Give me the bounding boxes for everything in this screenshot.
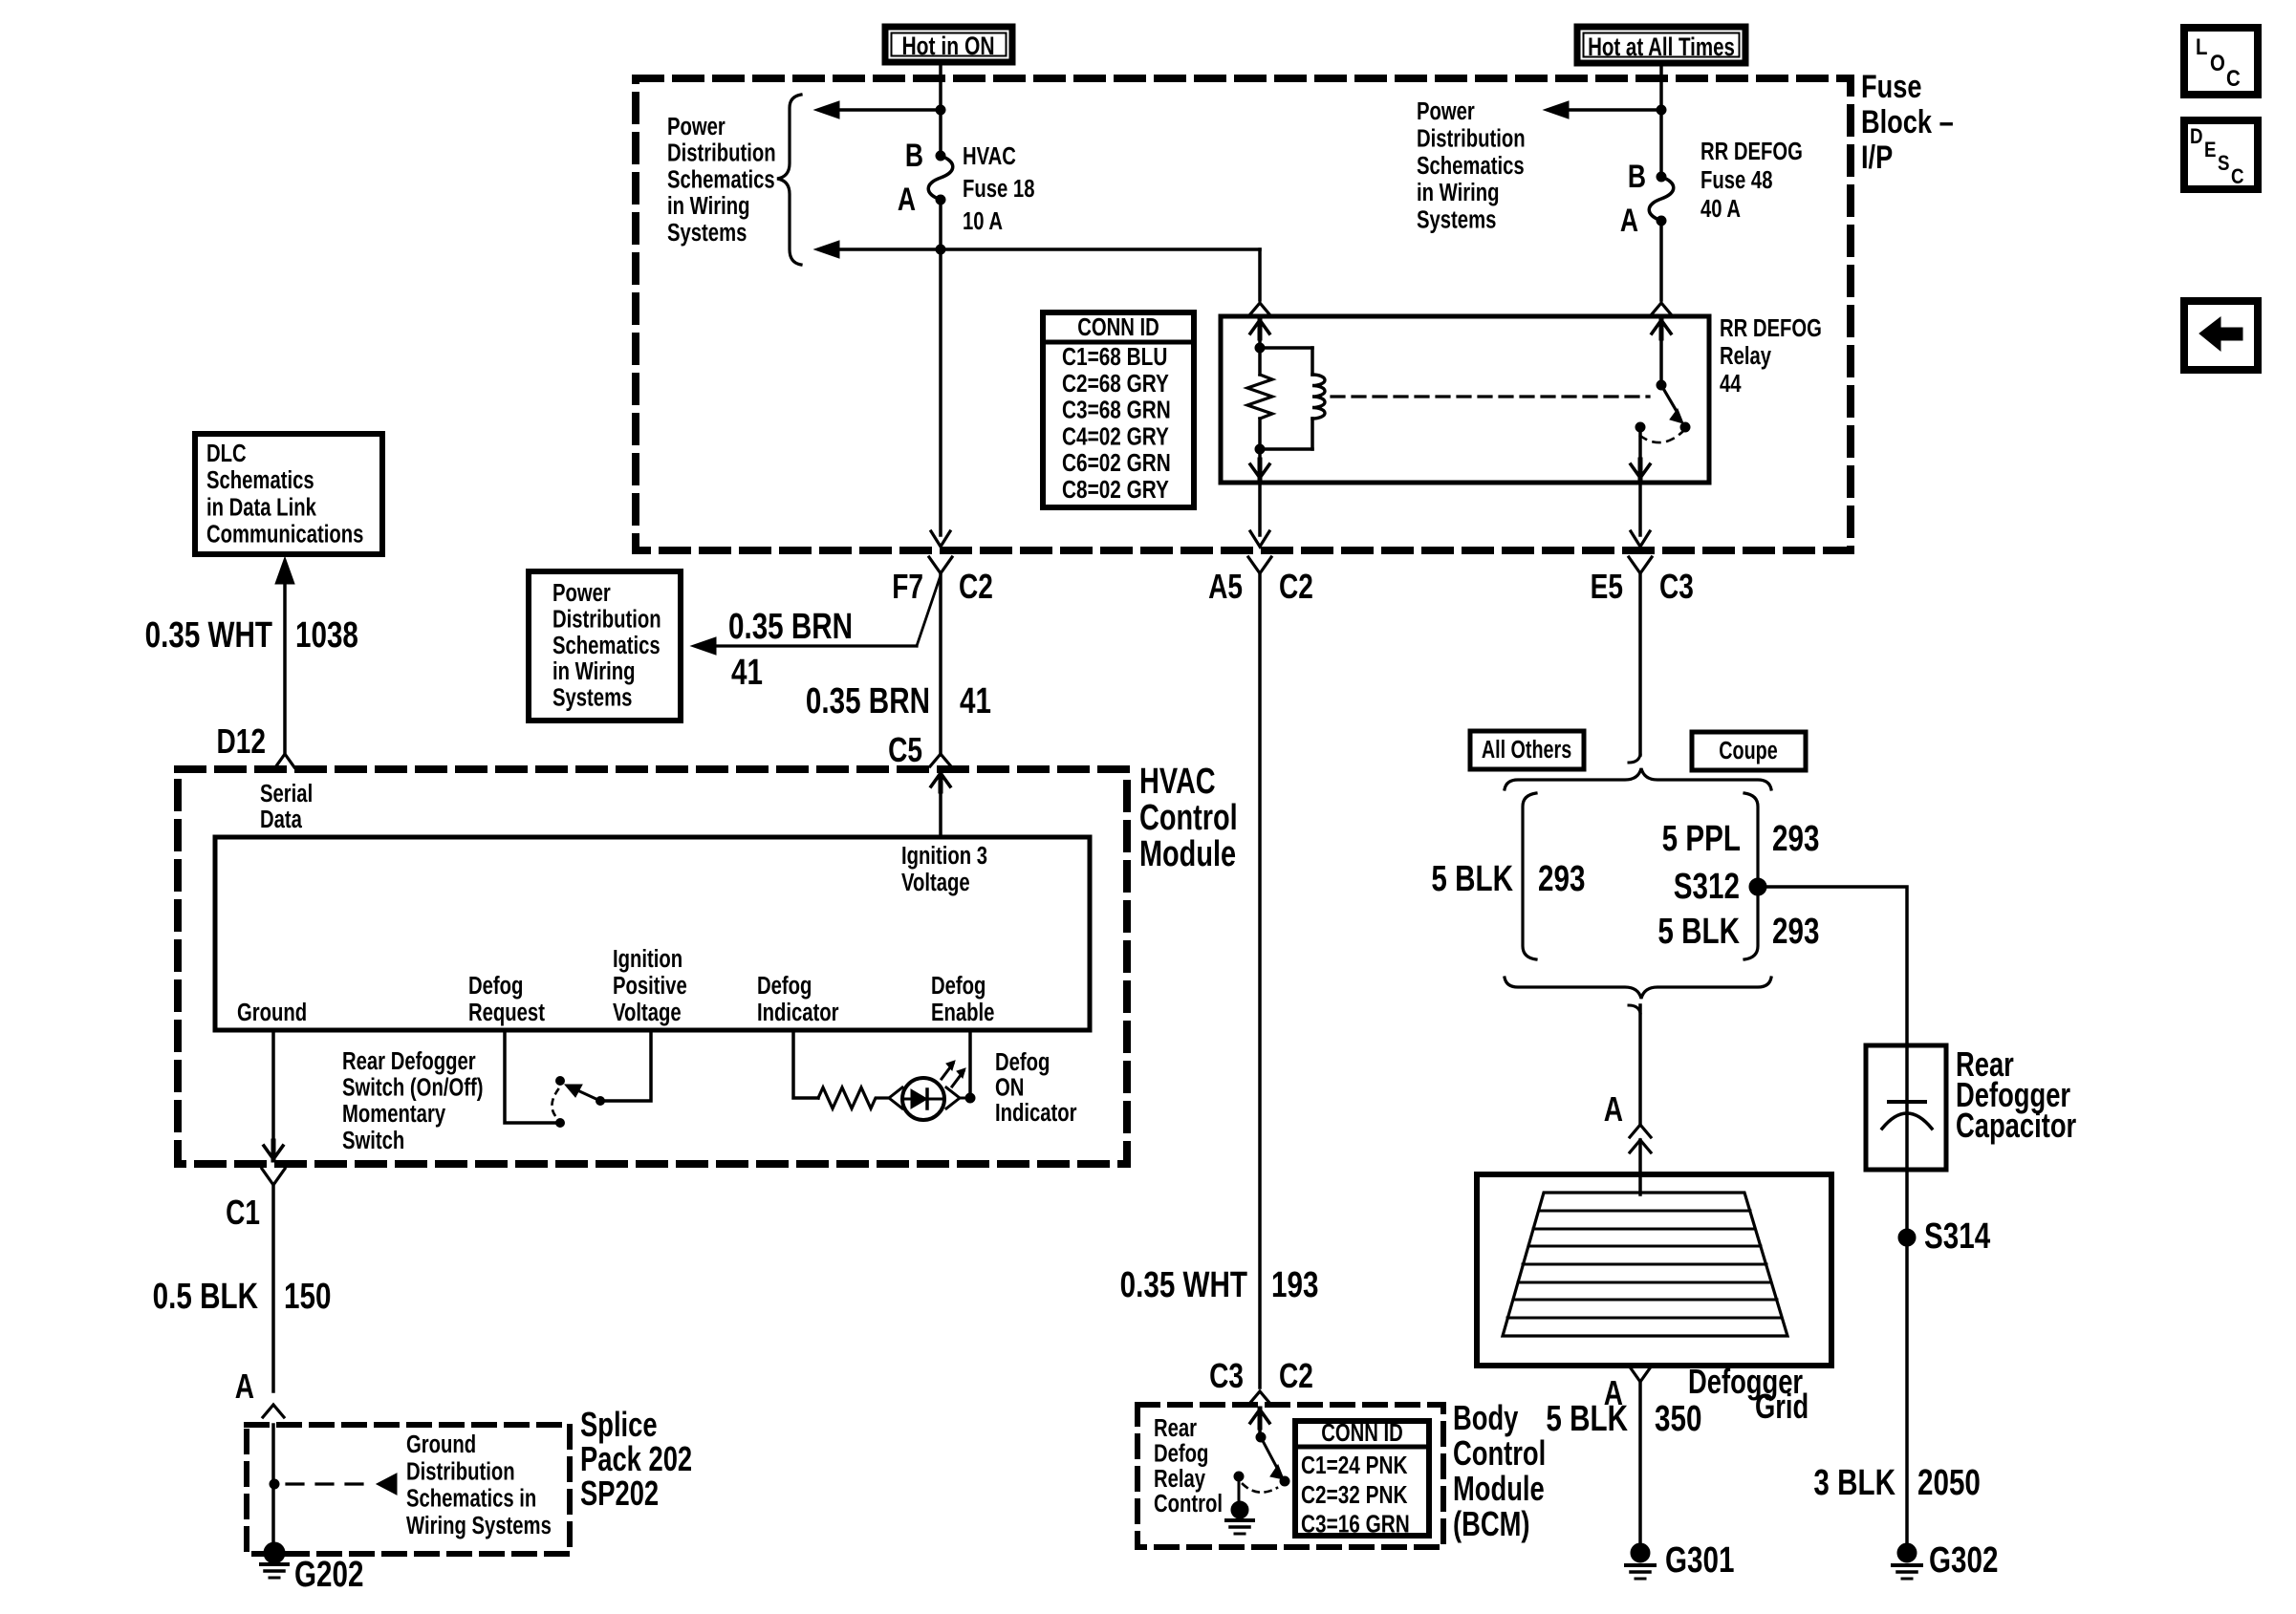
svg-text:Fuse 18: Fuse 18 xyxy=(963,175,1035,203)
svg-text:Defog: Defog xyxy=(931,972,986,1000)
svg-text:Schematics: Schematics xyxy=(552,631,661,658)
svg-text:CONN ID: CONN ID xyxy=(1077,313,1159,341)
connector fork D12 (arms down) xyxy=(275,754,294,767)
svg-text:C3: C3 xyxy=(1659,568,1694,606)
relay coil pin arrow (up) xyxy=(1258,333,1262,348)
svg-text:2050: 2050 xyxy=(1917,1463,1981,1503)
BCM internal ground xyxy=(1238,1476,1241,1502)
svg-text:G301: G301 xyxy=(1665,1540,1734,1581)
svg-text:Indicator: Indicator xyxy=(757,999,839,1026)
svg-text:Hot at All Times: Hot at All Times xyxy=(1588,32,1735,61)
svg-text:5 BLK: 5 BLK xyxy=(1431,859,1513,899)
svg-text:40 A: 40 A xyxy=(1700,195,1741,223)
wire F7 to HVAC control module (0.35 BRN 41) xyxy=(939,573,942,755)
svg-text:Switch: Switch xyxy=(342,1126,404,1153)
svg-text:C: C xyxy=(2226,65,2241,91)
BCM pin arrow (up) xyxy=(1250,1410,1269,1423)
connector fork below grid xyxy=(1629,1366,1652,1382)
wire relay E5 output to block edge xyxy=(1638,483,1642,535)
switch travel dashed arc xyxy=(552,1089,558,1117)
svg-text:0.35 BRN: 0.35 BRN xyxy=(806,681,930,721)
connector chevron A (splice) xyxy=(263,1405,284,1417)
svg-text:Defog: Defog xyxy=(1154,1439,1208,1467)
svg-text:E: E xyxy=(2204,140,2216,162)
relay coil output arrow (down) xyxy=(1258,449,1262,466)
relay output contact xyxy=(1635,422,1645,432)
svg-text:Systems: Systems xyxy=(552,683,632,711)
svg-text:Ignition: Ignition xyxy=(613,945,682,973)
wire Ground pin to module edge xyxy=(271,1030,275,1147)
svg-text:Voltage: Voltage xyxy=(901,869,970,896)
svg-text:G202: G202 xyxy=(294,1555,363,1595)
svg-text:S: S xyxy=(2218,153,2229,176)
svg-text:CONN ID: CONN ID xyxy=(1321,1419,1403,1447)
connector chevron at relay coil pin xyxy=(1249,303,1270,315)
svg-text:Distribution: Distribution xyxy=(406,1457,515,1485)
variant box "Coupe" xyxy=(1692,732,1806,770)
wire serial data to DLC box with arrow xyxy=(283,583,287,752)
wire to defogger grid xyxy=(1638,1005,1642,1124)
relay coil top junction xyxy=(1255,343,1265,353)
connector fork E5/C3 xyxy=(1629,557,1652,573)
LED diode symbol xyxy=(911,1089,927,1108)
svg-text:Fuse: Fuse xyxy=(1861,68,1921,105)
junction node on HVAC fuse feed xyxy=(936,105,945,115)
left variant wire segment xyxy=(1523,793,1536,959)
svg-text:Voltage: Voltage xyxy=(613,999,682,1026)
svg-text:150: 150 xyxy=(284,1277,331,1317)
svg-text:Systems: Systems xyxy=(1417,205,1496,233)
svg-text:A: A xyxy=(1604,1090,1623,1129)
svg-text:Pack 202: Pack 202 xyxy=(580,1439,692,1478)
LED circle (Defog ON Indicator) xyxy=(902,1078,944,1120)
svg-text:Power: Power xyxy=(667,113,726,140)
svg-text:Hot in ON: Hot in ON xyxy=(901,32,994,61)
BCM driver contact xyxy=(1280,1476,1289,1486)
lower split brace xyxy=(1505,978,1771,999)
CONN ID table (BCM) xyxy=(1295,1421,1429,1536)
svg-text:0.5 BLK: 0.5 BLK xyxy=(153,1277,259,1317)
svg-text:293: 293 xyxy=(1538,859,1585,899)
relay switch arm with arrowhead xyxy=(1661,385,1678,413)
svg-text:41: 41 xyxy=(731,653,763,693)
relay coil (4 bumps) xyxy=(1260,346,1312,350)
svg-text:Systems: Systems xyxy=(667,218,747,246)
svg-text:44: 44 xyxy=(1720,370,1742,398)
svg-text:D: D xyxy=(2190,126,2203,149)
splice node S314 xyxy=(1898,1229,1916,1246)
svg-text:10 A: 10 A xyxy=(963,207,1003,235)
svg-text:Defog: Defog xyxy=(468,972,523,1000)
svg-text:Capacitor: Capacitor xyxy=(1956,1106,2076,1145)
svg-text:Control: Control xyxy=(1453,1433,1546,1473)
svg-text:C3: C3 xyxy=(1209,1357,1244,1395)
variant box "All Others" xyxy=(1470,731,1584,769)
svg-text:293: 293 xyxy=(1772,819,1819,859)
svg-text:350: 350 xyxy=(1655,1399,1701,1439)
wire into grid xyxy=(1638,1174,1642,1194)
junction LED to enable wire xyxy=(960,1097,970,1100)
svg-text:193: 193 xyxy=(1271,1265,1318,1305)
splice node S312 xyxy=(1749,878,1766,895)
svg-text:1038: 1038 xyxy=(295,615,358,656)
connector chevron at relay top xyxy=(1651,303,1672,315)
wire Defog Indicator pin down xyxy=(793,1030,818,1098)
svg-text:5 PPL: 5 PPL xyxy=(1662,819,1741,859)
relay coil bottom junction xyxy=(1255,444,1265,454)
HVAC Control Module dashed outline xyxy=(178,769,1127,1164)
Defogger Grid outer box xyxy=(1477,1174,1831,1366)
nav button LOC xyxy=(2184,28,2258,95)
svg-text:Module: Module xyxy=(1453,1469,1545,1508)
switch upper contact xyxy=(556,1077,565,1086)
relay RR DEFOG Relay 44 outline xyxy=(1221,316,1709,483)
BCM ground contact xyxy=(1234,1472,1244,1481)
svg-text:Enable: Enable xyxy=(931,999,994,1026)
svg-text:Control: Control xyxy=(1139,797,1238,838)
relay resistor (vertical zigzag) xyxy=(1258,348,1262,375)
svg-text:Data: Data xyxy=(260,806,303,833)
svg-text:C: C xyxy=(2231,166,2244,189)
LED input chevron xyxy=(889,1087,902,1108)
svg-text:F7: F7 xyxy=(892,568,923,606)
switch lower contact xyxy=(556,1119,565,1128)
connector fork F7/C2 xyxy=(929,557,952,573)
svg-text:C5: C5 xyxy=(888,731,922,769)
svg-text:Distribution: Distribution xyxy=(552,605,661,633)
svg-text:Relay: Relay xyxy=(1720,342,1771,370)
svg-text:B: B xyxy=(1628,159,1646,195)
svg-text:0.35 BRN: 0.35 BRN xyxy=(728,607,853,647)
relay NO contact xyxy=(1680,422,1690,432)
ground G302 xyxy=(1897,1543,1917,1562)
svg-text:Schematics: Schematics xyxy=(667,165,775,193)
svg-text:RR DEFOG: RR DEFOG xyxy=(1700,138,1803,165)
switch arm with arrowhead (momentary) xyxy=(575,1089,600,1101)
svg-text:S314: S314 xyxy=(1924,1216,1990,1257)
svg-text:C2=68 GRY: C2=68 GRY xyxy=(1062,370,1169,398)
svg-text:C3=16 GRN: C3=16 GRN xyxy=(1301,1510,1410,1538)
svg-text:in Wiring: in Wiring xyxy=(667,192,749,220)
junction node RR fuse feed xyxy=(1657,105,1666,115)
svg-text:C2=32 PNK: C2=32 PNK xyxy=(1301,1481,1408,1509)
svg-text:0.35 WHT: 0.35 WHT xyxy=(145,615,273,656)
svg-text:in Wiring: in Wiring xyxy=(552,657,635,685)
svg-text:Serial: Serial xyxy=(260,780,313,807)
svg-text:5 BLK: 5 BLK xyxy=(1546,1399,1628,1439)
svg-text:A: A xyxy=(235,1367,254,1406)
pin arrow C5 into module xyxy=(931,773,950,786)
svg-text:C3=68 GRN: C3=68 GRN xyxy=(1062,396,1171,423)
svg-text:C8=02 GRY: C8=02 GRY xyxy=(1062,476,1169,504)
svg-text:in Wiring: in Wiring xyxy=(1417,179,1499,206)
svg-text:C1=24 PNK: C1=24 PNK xyxy=(1301,1452,1408,1479)
BCM driver arm with arrowhead xyxy=(1261,1437,1278,1470)
wire A5 to BCM (0.35 WHT 193) xyxy=(1258,573,1262,1388)
svg-text:Switch (On/Off): Switch (On/Off) xyxy=(342,1073,483,1101)
wire F7 fuse output down to fuse block edge xyxy=(939,249,942,535)
svg-text:Indicator: Indicator xyxy=(995,1099,1077,1127)
svg-text:All Others: All Others xyxy=(1482,735,1571,763)
wire Defog Enable pin down xyxy=(968,1030,972,1098)
svg-text:Distribution: Distribution xyxy=(1417,124,1526,152)
wire lower branch to relay feed corner xyxy=(941,247,1260,251)
svg-text:Request: Request xyxy=(468,999,545,1026)
svg-text:Ground: Ground xyxy=(406,1431,476,1458)
svg-text:Defog: Defog xyxy=(995,1048,1050,1076)
svg-text:293: 293 xyxy=(1772,912,1819,952)
capacitor plates xyxy=(1889,1100,1925,1104)
svg-text:DLC: DLC xyxy=(206,440,247,467)
svg-text:41: 41 xyxy=(960,681,991,721)
wire through capacitor box xyxy=(1905,1045,1909,1170)
connector chevron into BCM xyxy=(1249,1391,1270,1404)
svg-text:A5: A5 xyxy=(1208,568,1243,606)
splice junction node xyxy=(270,1479,279,1489)
wire capacitor to S314 xyxy=(1905,1170,1909,1545)
svg-text:A: A xyxy=(1620,203,1638,239)
stub diagonal from F7 connector xyxy=(917,575,941,646)
svg-text:HVAC: HVAC xyxy=(963,142,1016,170)
power label box "Hot in ON" xyxy=(885,27,1012,62)
wire S312 to capacitor xyxy=(1758,887,1907,1045)
wire Defog Request pin down xyxy=(505,1030,555,1123)
brace for power distribution references xyxy=(777,95,801,265)
branch arrow to Power Distribution (right) xyxy=(1569,108,1661,112)
defogger grid element (trapezoid with lines) xyxy=(1503,1193,1787,1336)
svg-text:Power: Power xyxy=(552,579,611,607)
resistor (defog indicator) xyxy=(818,1087,887,1108)
wire Ignition Positive Voltage pin down xyxy=(605,1030,651,1101)
svg-text:E5: E5 xyxy=(1591,568,1623,606)
Splice Pack dashed outline xyxy=(247,1425,570,1554)
branch arrow to Power Distribution (lower) xyxy=(839,247,941,251)
fuse HVAC Fuse 18 (S-curve) xyxy=(928,156,953,200)
LED output chevron xyxy=(946,1087,960,1108)
svg-text:S312: S312 xyxy=(1674,867,1740,907)
wire from Hot in ON into fuse block xyxy=(939,62,942,156)
ground G202 xyxy=(264,1542,285,1563)
svg-text:Control: Control xyxy=(1154,1490,1223,1517)
svg-text:Block –: Block – xyxy=(1861,103,1954,140)
svg-text:G302: G302 xyxy=(1929,1540,1998,1581)
wire RR fuse to relay xyxy=(1659,221,1663,300)
svg-text:Splice: Splice xyxy=(580,1405,658,1444)
svg-text:B: B xyxy=(905,138,923,174)
svg-text:Schematics in: Schematics in xyxy=(406,1484,536,1512)
BCM throw dashed arc xyxy=(1243,1484,1277,1493)
svg-text:(BCM): (BCM) xyxy=(1453,1504,1530,1543)
svg-text:Momentary: Momentary xyxy=(342,1100,445,1128)
svg-text:ON: ON xyxy=(995,1073,1024,1101)
branch arrow to Power Distribution (upper left) xyxy=(839,108,941,112)
svg-text:Defog: Defog xyxy=(757,972,812,1000)
svg-text:C2: C2 xyxy=(1279,568,1313,606)
BCM relay-driver pivot dot xyxy=(1256,1432,1266,1442)
reference box DLC Schematics in Data Link Communications xyxy=(195,434,382,554)
svg-text:Rear: Rear xyxy=(1154,1414,1197,1442)
upper split brace xyxy=(1505,768,1771,789)
svg-text:HVAC: HVAC xyxy=(1139,761,1216,802)
connector chevron C5 xyxy=(930,754,951,766)
wire end hook xyxy=(1629,755,1640,763)
connector arrow A5 at block edge xyxy=(1250,531,1269,547)
connector arrow F7 at fuse block boundary xyxy=(931,531,950,547)
relay switch throw dashed arc xyxy=(1640,432,1682,442)
connector fork C1 xyxy=(262,1169,285,1185)
LED light rays xyxy=(942,1064,953,1079)
svg-text:Wiring Systems: Wiring Systems xyxy=(406,1511,552,1539)
BCM dashed outline xyxy=(1137,1405,1443,1547)
connector arrow E5 at block edge xyxy=(1631,531,1650,547)
svg-text:Schematics: Schematics xyxy=(1417,151,1525,179)
svg-text:I/P: I/P xyxy=(1861,139,1893,176)
svg-text:Rear Defogger: Rear Defogger xyxy=(342,1047,476,1075)
svg-text:Distribution: Distribution xyxy=(667,139,776,166)
svg-text:D12: D12 xyxy=(217,722,266,761)
nav button DESC xyxy=(2184,120,2258,189)
svg-text:C4=02 GRY: C4=02 GRY xyxy=(1062,422,1169,450)
svg-text:RR DEFOG: RR DEFOG xyxy=(1720,314,1822,342)
svg-text:C6=02 GRN: C6=02 GRN xyxy=(1062,449,1171,477)
stub wire with arrow to Power Distribution box xyxy=(715,644,917,647)
svg-text:C1: C1 xyxy=(226,1194,260,1232)
svg-text:Ignition 3: Ignition 3 xyxy=(901,842,987,870)
svg-text:0.35 WHT: 0.35 WHT xyxy=(1120,1265,1248,1305)
relay control dashed link xyxy=(1332,395,1649,398)
svg-text:Module: Module xyxy=(1139,833,1236,874)
fuse block dashed outline xyxy=(636,78,1851,550)
svg-text:Communications: Communications xyxy=(206,520,363,548)
switch arm pivot dot xyxy=(596,1097,605,1106)
Rear Defogger Capacitor box xyxy=(1866,1045,1946,1170)
double chevron connector (grid A) xyxy=(1630,1125,1651,1137)
ground distribution dashed stub with arrow xyxy=(287,1482,375,1485)
wire below HVAC fuse to second branch xyxy=(939,200,942,249)
ground G301 xyxy=(1631,1543,1650,1562)
wire into splice pack xyxy=(271,1425,275,1544)
wire from Hot at All Times into fuse block xyxy=(1659,63,1663,177)
wire relay A5 output to block edge xyxy=(1258,483,1262,535)
svg-text:SP202: SP202 xyxy=(580,1474,659,1513)
right variant wire segment xyxy=(1744,793,1758,959)
reference box Power Distribution Schematics in Wiring Systems xyxy=(529,571,681,721)
svg-text:Body: Body xyxy=(1453,1398,1519,1437)
svg-text:Grid: Grid xyxy=(1755,1387,1809,1426)
svg-text:Fuse 48: Fuse 48 xyxy=(1700,166,1773,194)
svg-text:C2: C2 xyxy=(1279,1357,1313,1395)
wire hook below lower brace xyxy=(1629,1005,1640,1013)
svg-text:Power: Power xyxy=(1417,97,1475,125)
relay common pin arrow (up) xyxy=(1659,333,1663,381)
svg-text:O: O xyxy=(2210,50,2225,75)
svg-text:Coupe: Coupe xyxy=(1719,736,1778,764)
svg-text:Schematics: Schematics xyxy=(206,466,314,494)
wire C1 to splice pack (0.5 BLK 150) xyxy=(271,1185,275,1391)
svg-text:C2: C2 xyxy=(959,568,993,606)
relay switch pivot xyxy=(1657,380,1666,390)
svg-text:in Data Link: in Data Link xyxy=(206,493,316,521)
power label box "Hot at All Times" xyxy=(1577,27,1745,63)
relay output arrow (down) xyxy=(1638,427,1642,466)
svg-text:3 BLK: 3 BLK xyxy=(1813,1463,1895,1503)
junction node lower branch xyxy=(936,245,945,254)
svg-text:Positive: Positive xyxy=(613,972,687,1000)
HVAC module inner box xyxy=(215,837,1090,1030)
connector fork A5/C2 xyxy=(1248,557,1271,573)
CONN ID table (fuse block connectors) xyxy=(1043,312,1194,507)
svg-text:A: A xyxy=(898,182,916,218)
svg-text:Ground: Ground xyxy=(237,999,307,1026)
nav button back arrow xyxy=(2184,301,2258,370)
svg-text:5 BLK: 5 BLK xyxy=(1657,912,1740,952)
fuse RR DEFOG Fuse 48 (S-curve) xyxy=(1649,177,1674,221)
svg-text:L: L xyxy=(2196,33,2207,59)
wire E5 down to variant split xyxy=(1638,573,1642,755)
svg-text:Relay: Relay xyxy=(1154,1464,1205,1492)
svg-text:C1=68 BLU: C1=68 BLU xyxy=(1062,343,1167,371)
